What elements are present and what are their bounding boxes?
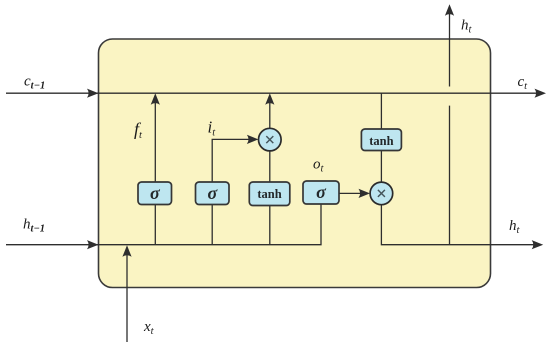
arrowhead: c_t exit: [535, 89, 547, 98]
wire: h_t up branch upper segment: [449, 9, 451, 87]
gate sigma3 (output): [303, 181, 339, 204]
svg-text:tanh: tanh: [369, 134, 393, 148]
gate sigma2 (input): [196, 182, 230, 205]
svg-text:σ: σ: [207, 183, 218, 203]
arrowhead: h entry at cell edge: [87, 240, 99, 249]
wire: c line (top horizontal, y=93): [6, 92, 539, 94]
wire: i_t branch (sigma2 up then right to circle1): [212, 139, 254, 244]
arrowhead: i_t into circle1: [247, 135, 259, 144]
wire: tanh1 branch vertical: [269, 98, 271, 245]
arrowhead: into circle2: [359, 189, 371, 198]
svg-text:σ: σ: [150, 183, 161, 203]
arrowhead: f_t into c line: [151, 93, 160, 105]
wire: x_t input vertical: [126, 250, 128, 342]
wire: h_t output (from circle2 down then right): [381, 205, 536, 245]
gate tanh1 (candidate): [249, 182, 289, 206]
arrowhead: h_t exit top: [445, 4, 454, 16]
wire: tanh2 branch vertical (c line down to circle2): [380, 93, 382, 185]
svg-text:σ: σ: [316, 182, 327, 202]
arrowhead: x_t into h line: [122, 245, 131, 256]
arrowhead: h_t exit right: [532, 240, 544, 249]
gate tanh2 (cell output): [361, 129, 401, 151]
wire: h_t up branch lower segment: [449, 106, 451, 245]
gate sigma1 (forget): [138, 182, 172, 205]
svg-text:tanh: tanh: [257, 187, 281, 201]
multiply circle2: [370, 182, 393, 205]
multiply circle1: [259, 128, 282, 151]
arrowhead: c entry at cell edge: [87, 89, 99, 98]
LSTM cell body: [99, 39, 491, 288]
wire: f_t branch vertical (through sigma1): [154, 98, 156, 245]
wire: sigma3 to circle2 horizontal: [339, 192, 365, 194]
arrowhead: tanh1/circle1 into c line: [265, 93, 274, 105]
wire: h_t-1 line (bottom-left horizontal, corner up into sigma3): [6, 190, 321, 245]
